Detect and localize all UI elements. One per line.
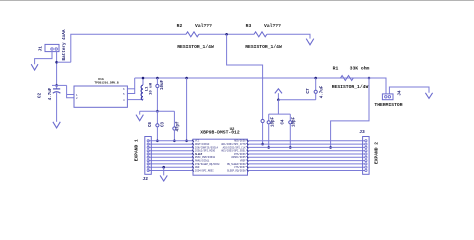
svg-text:2: 2 <box>76 97 78 100</box>
node tap to row2 <box>261 143 264 146</box>
svg-text:Battery 4xAA: Battery 4xAA <box>62 29 67 60</box>
svg-text:5: 5 <box>123 93 125 96</box>
node thermistor branch <box>368 77 371 80</box>
capacitor C5 right 10pF <box>289 114 291 121</box>
svg-text:R3: R3 <box>246 23 252 29</box>
wire divider tap down to row2 <box>227 34 263 119</box>
wire U1A pin6 <box>127 88 134 90</box>
wire bus rows right of U2 <box>248 141 366 171</box>
svg-text:J3: J3 <box>359 129 365 135</box>
capacitor C2 <box>56 85 58 88</box>
svg-text:EXPAND 1: EXPAND 1 <box>134 139 140 161</box>
wire rail between R2 and R3 <box>199 33 254 35</box>
wire U1A pin4 to L1 <box>127 99 143 101</box>
wire battery plus to top rail <box>57 61 71 63</box>
svg-text:C2: C2 <box>38 93 43 99</box>
top window edge line <box>0 0 474 2</box>
svg-text:DIO4/SPI_MOSI: DIO4/SPI_MOSI <box>195 169 214 172</box>
wire U1A pin5 to rail riser <box>127 78 134 94</box>
wire branch to row3 <box>331 78 369 147</box>
wire vin hook to U1A pins <box>67 85 74 97</box>
svg-text:Val???: Val??? <box>195 23 212 29</box>
capacitor C7 <box>314 77 317 80</box>
capacitor 10uF on rail <box>156 77 159 80</box>
resistor R3 <box>254 32 267 37</box>
ground under C2 <box>53 122 60 128</box>
inductor L1 <box>142 78 144 85</box>
wire vcc rail y=78 <box>135 77 386 79</box>
svg-text:J1: J1 <box>38 46 44 52</box>
svg-text:XBP9B-DMST-012: XBP9B-DMST-012 <box>200 130 240 136</box>
wire R1 to thermistor <box>354 78 387 94</box>
resistor R2 <box>186 32 199 37</box>
connector J3 EXPAND 2 <box>363 137 370 175</box>
svg-text:SLEEP_RQ/DIO8: SLEEP_RQ/DIO8 <box>227 169 246 172</box>
node branch row3 <box>329 146 332 149</box>
resistor R1 <box>341 76 354 81</box>
node dropper row1 <box>185 140 188 143</box>
U2 left pin labels <box>195 140 220 173</box>
svg-text:10pF: 10pF <box>272 116 276 127</box>
wire top rail y=33 <box>71 34 186 62</box>
wire tap cap to row2 <box>262 123 264 145</box>
ground after R3 <box>306 39 314 45</box>
IC U2 XBee module <box>193 139 248 175</box>
svg-text:47pf: 47pf <box>175 121 180 132</box>
wire gnd bar y=111.2 <box>140 110 175 112</box>
wire expand1 gnd stem <box>163 167 165 175</box>
svg-text:RESISTOR_1/4W: RESISTOR_1/4W <box>245 44 282 50</box>
svg-text:RESISTOR_1/4W: RESISTOR_1/4W <box>177 44 214 50</box>
svg-text:33K ohm: 33K ohm <box>350 66 370 72</box>
U2 right pin labels <box>221 140 246 173</box>
node battery to vin <box>55 84 58 87</box>
svg-text:RESISTOR_1/4W: RESISTOR_1/4W <box>332 84 369 90</box>
wire vcc down to cap pair <box>277 100 279 114</box>
wire cap pair top bar <box>269 113 291 115</box>
svg-text:C4: C4 <box>282 119 286 125</box>
svg-text:10uF: 10uF <box>161 79 165 90</box>
node C6 to row1 <box>156 140 159 143</box>
wire thermistor pin2 to ground <box>389 87 429 94</box>
node vcc tee <box>277 99 280 102</box>
connector J1 battery <box>45 44 59 51</box>
ground expand1 <box>160 175 167 181</box>
svg-text:Val???: Val??? <box>264 23 281 29</box>
wire bus rows left of U2 <box>148 141 193 171</box>
op-amp U1A boost converter box <box>74 86 127 107</box>
capacitor C4 left 10pF <box>268 114 270 121</box>
wire rail dropper to row1 <box>186 78 188 141</box>
wire vin to U1A pin1 <box>67 94 74 96</box>
connector J2 EXPAND 1 <box>145 137 152 175</box>
node expand1 gnd row <box>162 166 165 169</box>
connector J4 thermistor <box>382 94 393 100</box>
capacitor C3 47pf <box>173 111 175 127</box>
svg-text:4.7uF: 4.7uF <box>49 87 53 100</box>
wire J1 pin2 down <box>56 52 58 86</box>
wire rail after R3 to ground <box>267 34 310 38</box>
ground battery minus <box>31 64 38 70</box>
svg-text:4: 4 <box>123 99 125 102</box>
ground thermistor <box>425 93 432 99</box>
svg-text:U1A: U1A <box>98 77 104 81</box>
svg-text:10pF: 10pF <box>292 116 296 127</box>
power VCC arrow <box>275 89 282 94</box>
node rail dropper <box>185 77 188 80</box>
svg-text:C7: C7 <box>306 88 311 94</box>
node C4 left to row3 <box>267 146 270 149</box>
wire vin bar <box>52 84 67 86</box>
node C3 to row1 <box>173 140 176 143</box>
node cap bar junction <box>156 110 159 113</box>
svg-text:TPS61201_DRV_B: TPS61201_DRV_B <box>94 82 119 85</box>
svg-text:R1: R1 <box>333 66 339 72</box>
svg-text:J4: J4 <box>397 90 402 96</box>
svg-text:THERMISTOR: THERMISTOR <box>374 102 402 108</box>
wire vcc to C7 <box>278 99 315 101</box>
svg-text:EXPAND 2: EXPAND 2 <box>373 142 379 164</box>
svg-text:C6: C6 <box>149 122 153 128</box>
svg-text:C3: C3 <box>162 122 166 128</box>
U2 pin ticks <box>192 140 249 172</box>
svg-text:J2: J2 <box>143 176 149 182</box>
svg-text:10 uH: 10 uH <box>150 82 154 95</box>
svg-text:4.7uF: 4.7uF <box>321 85 325 98</box>
svg-text:R2: R2 <box>177 23 183 29</box>
capacitor C6 <box>156 111 158 124</box>
node divider tap junction <box>225 33 228 36</box>
node battery plus <box>55 61 58 64</box>
wire J1 pin1 to ground <box>35 52 52 65</box>
svg-text:6: 6 <box>123 88 125 91</box>
node C5 to row3 <box>289 146 292 149</box>
ground mid bar <box>136 115 143 121</box>
capacitor C5 on tap wire <box>261 119 264 122</box>
